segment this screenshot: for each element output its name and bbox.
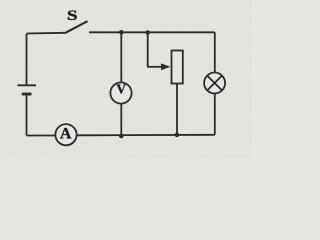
wire: left vertical (top corner to battery): [26, 34, 28, 86]
node: junction top of voltmeter branch: [119, 30, 124, 35]
rheostat wiper arrowhead: [161, 63, 170, 70]
resistor (rheostat) body: [172, 51, 183, 84]
switch S blade: [65, 21, 88, 33]
svg-text:A: A: [60, 125, 72, 142]
lamp X diagonal 2: [207, 76, 222, 91]
node: junction bottom of rheostat branch: [175, 133, 180, 138]
wire: bottom left segment to ammeter: [27, 135, 57, 137]
lamp X diagonal 1: [207, 76, 222, 91]
wire: rheostat wiper drop from top wire: [147, 32, 149, 67]
node: junction bottom of voltmeter branch: [119, 134, 124, 139]
wire: top right segment from switch to top-right corner: [89, 31, 215, 33]
node: junction top of rheostat branch: [145, 30, 150, 35]
paper background: [0, 0, 252, 158]
lamp circle: [204, 73, 225, 94]
battery long plate: [18, 84, 37, 86]
wire: voltmeter branch upper: [120, 32, 122, 83]
voltmeter V1 circle: [110, 82, 131, 103]
wire: left vertical (battery to bottom corner): [26, 95, 28, 136]
svg-text:S: S: [67, 7, 78, 24]
svg-text:V: V: [116, 82, 126, 97]
ammeter A1 circle: [55, 124, 76, 145]
wire: bottom segment ammeter to bottom-right corner: [77, 134, 215, 137]
wire: rheostat bottom lead: [176, 84, 178, 135]
wire: top left segment to switch: [27, 32, 65, 35]
wire: voltmeter branch lower: [120, 104, 122, 136]
battery short thick plate: [22, 93, 32, 96]
wire: right vertical bottom (lamp to bottom corner): [214, 93, 216, 135]
wire: rheostat wiper horizontal: [147, 66, 163, 68]
wire: right vertical top (corner to lamp): [214, 32, 216, 72]
